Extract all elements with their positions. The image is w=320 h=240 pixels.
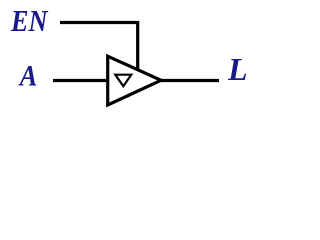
wire EN horizontal and vertical into buffer top edge [60,23,138,73]
wire input A [53,79,110,82]
wire output L [159,79,219,82]
svg-text:L: L [227,51,248,87]
svg-text:A: A [18,60,37,93]
svg-text:EN: EN [10,3,49,38]
tri-state output symbol (inner inverted triangle) [115,75,131,87]
buffer U1 triangle [108,56,161,105]
